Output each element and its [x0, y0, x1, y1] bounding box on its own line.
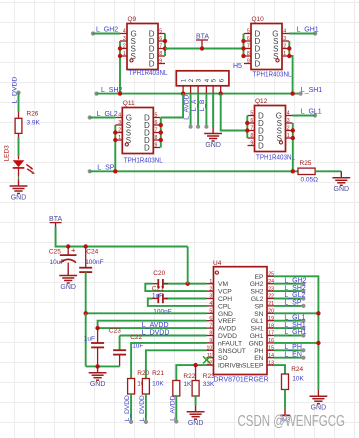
net label L_GH2: [91, 27, 118, 36]
svg-text:D: D: [144, 143, 150, 152]
svg-text:DVDD: DVDD: [218, 333, 237, 340]
wire L_DVDD to R26: [18, 93, 20, 119]
wire VREF row: [98, 321, 207, 328]
wire R23 lead: [195, 365, 197, 380]
svg-text:25: 25: [268, 272, 274, 278]
resistor R23: [192, 373, 215, 396]
junction Q10 drain bus: [241, 39, 245, 58]
svg-text:GND: GND: [60, 284, 76, 291]
svg-text:R25: R25: [300, 160, 312, 167]
svg-text:GND: GND: [11, 194, 27, 201]
net label L_DVDD (LED branch): [12, 77, 21, 104]
net label L_PH (U4): [274, 344, 306, 352]
net label L_SH1 (U4): [274, 322, 306, 330]
svg-text:2: 2: [283, 44, 286, 50]
svg-text:16: 16: [268, 338, 274, 344]
junction VM/BTA: [186, 282, 190, 286]
svg-text:6: 6: [247, 36, 250, 42]
svg-text:+: +: [71, 245, 76, 254]
svg-text:2: 2: [209, 286, 212, 292]
svg-text:15: 15: [268, 346, 274, 352]
svg-text:2: 2: [287, 126, 290, 132]
junction SH rail: [118, 91, 295, 95]
svg-text:L_GL2: L_GL2: [284, 292, 305, 299]
svg-text:8: 8: [155, 135, 158, 141]
junction AVDD/C23: [95, 326, 99, 330]
svg-text:L_DVDD: L_DVDD: [124, 395, 131, 421]
svg-text:9: 9: [247, 59, 250, 65]
svg-text:10K: 10K: [152, 380, 164, 387]
svg-text:7: 7: [209, 323, 212, 329]
net label L_SH2 (U4): [274, 285, 306, 293]
svg-text:L_B: L_B: [199, 99, 206, 111]
wire drain rail Q9-Q10: [165, 48, 244, 50]
svg-text:9: 9: [250, 141, 253, 147]
wire H9 pin6 to Q12 drain bus: [221, 94, 248, 131]
svg-text:D: D: [258, 141, 264, 150]
svg-text:CSDN @WENFGCG: CSDN @WENFGCG: [238, 413, 346, 430]
svg-text:33K: 33K: [203, 381, 215, 388]
junction SP rail: [113, 169, 295, 173]
wire GND row: [86, 312, 207, 314]
net label L_SP: [88, 164, 115, 173]
wire R24 down: [284, 390, 286, 409]
svg-text:L_AVDD: L_AVDD: [142, 322, 169, 329]
junction Q12 source bus: [291, 128, 295, 140]
ground (R23): [187, 405, 205, 427]
net label L_GL2: [88, 111, 118, 119]
svg-text:C21: C21: [152, 286, 164, 293]
svg-text:5: 5: [250, 111, 253, 117]
junction IDRIVE/R23: [193, 363, 197, 367]
svg-text:13: 13: [268, 360, 274, 366]
svg-text:EN: EN: [254, 355, 263, 362]
svg-text:GL1: GL1: [251, 318, 264, 325]
svg-text:9: 9: [155, 143, 158, 149]
wire DVDD row: [120, 335, 207, 337]
value label 100nF (C21): [153, 308, 171, 315]
wire SP rail: [90, 170, 298, 172]
svg-text:C23: C23: [109, 328, 121, 335]
svg-text:R24: R24: [291, 366, 303, 373]
net label L_GH1: [297, 27, 319, 36]
svg-text:DRV8701ERGER: DRV8701ERGER: [214, 377, 269, 384]
wire Q12 source bus: [292, 123, 294, 172]
watermark CSDN @WENFGCG: [238, 413, 346, 430]
junction Q9 drain bus: [163, 39, 167, 51]
wire BTA rail: [56, 227, 188, 247]
net label L_GH2 (U4): [274, 277, 307, 285]
svg-text:8: 8: [250, 133, 253, 139]
svg-text:CPH: CPH: [218, 296, 232, 303]
net label L_GH1 (U4): [274, 329, 307, 337]
svg-text:6: 6: [209, 316, 212, 322]
svg-text:8: 8: [247, 51, 250, 57]
net label L_SH2: [94, 87, 122, 96]
wire L_GL2 to Q11 gate: [90, 117, 116, 119]
ground (rail): [89, 366, 107, 388]
resistor R24: [282, 366, 305, 389]
resistor R22: [173, 373, 196, 396]
svg-text:7: 7: [155, 128, 158, 134]
svg-text:20: 20: [268, 309, 274, 315]
svg-text:GL2: GL2: [251, 296, 264, 303]
wire Q12 drain bus: [246, 116, 248, 139]
transistor Q10: [244, 16, 292, 78]
svg-text:6: 6: [250, 118, 253, 124]
net label L_DVDD (DVDD row): [142, 329, 170, 336]
svg-text:1K: 1K: [183, 381, 192, 388]
svg-text:R22: R22: [183, 373, 195, 380]
svg-text:0.05Ω: 0.05Ω: [301, 177, 319, 184]
wire C25 lead: [67, 247, 69, 256]
svg-text:VM: VM: [218, 281, 228, 288]
resistor R25: [298, 160, 318, 184]
junction BTA rail: [66, 244, 88, 248]
wire R25 to ground: [315, 170, 341, 172]
wire nSLEEP to R24: [274, 365, 285, 374]
svg-text:5: 5: [247, 29, 250, 35]
wire Q11 drain bus: [160, 118, 162, 148]
svg-text:PH: PH: [254, 348, 263, 355]
wire R22 to L_AVDD: [169, 395, 178, 423]
svg-text:4: 4: [123, 29, 126, 35]
svg-text:GND: GND: [311, 405, 327, 412]
wire SNSOUT row to R21: [146, 350, 207, 378]
resistor R26: [15, 110, 40, 133]
svg-text:GND: GND: [205, 142, 221, 149]
junction SN/EP: [316, 311, 320, 315]
svg-text:1uF: 1uF: [84, 335, 95, 342]
transistor Q11: [115, 100, 163, 165]
svg-text:GH2: GH2: [250, 281, 264, 288]
svg-text:GND: GND: [218, 311, 233, 318]
svg-text:L_EN: L_EN: [284, 351, 302, 358]
wire R21 to L_DVDD: [139, 394, 148, 424]
op-amp U1 equivalent driver IC U4: [207, 260, 275, 375]
ground (H9 pin5): [204, 127, 222, 149]
svg-text:1: 1: [287, 133, 290, 139]
svg-text:L_SH1: L_SH1: [301, 87, 323, 94]
svg-text:6: 6: [155, 120, 158, 126]
net label L_GL1: [301, 109, 322, 118]
svg-text:L_SP: L_SP: [97, 164, 114, 171]
power port BTA (top): [196, 33, 209, 48]
net label L_GL2 (U4): [274, 292, 306, 300]
svg-text:L_PH: L_PH: [284, 344, 302, 351]
ground (LED branch): [10, 180, 28, 202]
wire Q10 drain bus: [243, 34, 245, 57]
svg-text:L_SH2: L_SH2: [284, 285, 306, 292]
svg-text:L_DVDD: L_DVDD: [139, 395, 146, 421]
capacitor C23: [84, 328, 121, 367]
svg-text:Q11: Q11: [123, 100, 135, 107]
transistor Q12: [248, 98, 296, 162]
svg-text:9: 9: [209, 338, 212, 344]
svg-text:SN: SN: [254, 311, 263, 318]
svg-text:8: 8: [159, 51, 162, 57]
junction Q11 drain bus: [159, 123, 163, 142]
wire nFAULT row to R20: [131, 343, 206, 379]
svg-text:24: 24: [268, 279, 274, 285]
svg-text:GND: GND: [90, 381, 106, 388]
svg-text:1: 1: [209, 279, 212, 285]
svg-text:22: 22: [268, 294, 274, 300]
svg-text:7: 7: [159, 44, 162, 50]
wire ground rail (C24-C22): [86, 365, 120, 367]
net label L_SP (U4): [274, 300, 306, 308]
svg-text:nSLEEP: nSLEEP: [238, 363, 264, 370]
svg-text:L_A: L_A: [191, 99, 198, 111]
net label L_GL1 (U4): [274, 314, 306, 322]
svg-text:Q9: Q9: [128, 16, 137, 23]
wire LED3 to ground: [18, 168, 20, 180]
value label DRV8701ERGER: [214, 377, 269, 384]
svg-text:19: 19: [268, 316, 274, 322]
wire Q10 source bus: [289, 41, 292, 94]
wire H9 pin5 to ground: [212, 94, 214, 127]
svg-text:GND: GND: [188, 420, 204, 427]
no-ERC cross at SO pin: [203, 356, 210, 363]
wire C20 to VCP row: [145, 284, 206, 291]
svg-text:CPL: CPL: [218, 303, 231, 310]
wire SN row: [274, 312, 318, 314]
svg-text:4: 4: [209, 301, 212, 307]
wire C24 branch down: [85, 313, 87, 366]
wire Q11 source bus: [114, 125, 116, 171]
wire EP to ground: [274, 276, 318, 389]
wire C24 to GND row: [85, 272, 87, 313]
svg-text:L_AVDD: L_AVDD: [184, 94, 191, 119]
transistor Q9: [120, 16, 168, 77]
wire L_GH2 to Q9 gate: [93, 33, 120, 35]
svg-text:SP: SP: [255, 303, 264, 310]
wire SH rail: [97, 93, 301, 95]
wire BTA drop to VM: [187, 247, 189, 284]
net label H5: [233, 63, 242, 70]
wire Q9 drain bus: [164, 34, 166, 57]
wire R20 to L_DVDD: [124, 394, 133, 424]
svg-text:TPH1R403NL: TPH1R403NL: [253, 71, 292, 78]
svg-text:D: D: [255, 59, 261, 68]
svg-text:7: 7: [247, 44, 250, 50]
svg-text:23: 23: [268, 286, 274, 292]
svg-text:TPH1R403NL: TPH1R403NL: [124, 158, 163, 165]
svg-text:TPH1R403NL: TPH1R403NL: [129, 70, 168, 77]
svg-text:3: 3: [283, 36, 286, 42]
svg-text:H5: H5: [233, 63, 242, 70]
junction GND row / C24: [84, 311, 88, 315]
junction GND16/EP: [316, 341, 320, 345]
wire Q12 gate to L_GL1: [293, 115, 316, 117]
svg-text:3.9K: 3.9K: [27, 120, 41, 127]
svg-text:VREF: VREF: [218, 318, 236, 325]
svg-text:SH1: SH1: [250, 326, 263, 333]
junction BTA tap: [200, 46, 204, 50]
resistor R21: [142, 370, 164, 394]
wire C24 top lead: [85, 247, 87, 268]
svg-text:U4: U4: [213, 260, 222, 267]
capacitor C21: [152, 286, 164, 304]
net label L_EN (U4): [274, 351, 306, 359]
wire H9 pin4 (L_B): [199, 94, 208, 129]
capacitor C22: [113, 334, 143, 367]
svg-text:5: 5: [159, 29, 162, 35]
svg-text:TPH1R403NL: TPH1R403NL: [256, 155, 295, 162]
junction Q9 source bus: [118, 46, 122, 58]
svg-text:14: 14: [268, 353, 274, 359]
svg-text:Q12: Q12: [255, 98, 268, 105]
svg-text:2: 2: [118, 128, 121, 134]
svg-text:GND: GND: [334, 186, 350, 193]
svg-text:6: 6: [159, 36, 162, 42]
svg-text:5: 5: [155, 113, 158, 119]
svg-text:100nF: 100nF: [153, 308, 171, 315]
svg-text:21: 21: [268, 301, 274, 307]
svg-text:SO: SO: [218, 355, 228, 362]
capacitor C24: [79, 249, 103, 272]
svg-text:1: 1: [123, 51, 126, 57]
svg-text:AVDD: AVDD: [218, 326, 236, 333]
svg-text:4: 4: [283, 29, 286, 35]
svg-text:1: 1: [283, 51, 286, 57]
power port 3V3 (under watermark): [280, 409, 290, 424]
connector H9: [176, 71, 229, 94]
svg-text:SH2: SH2: [250, 289, 263, 296]
svg-text:SNSOUT: SNSOUT: [218, 348, 246, 355]
svg-text:C25: C25: [49, 249, 61, 256]
svg-text:8: 8: [209, 331, 212, 337]
wire Q10 gate to L_GH1: [289, 33, 315, 35]
wire C25 to ground: [67, 263, 69, 269]
svg-text:5: 5: [209, 309, 212, 315]
ground (C25): [59, 269, 77, 291]
svg-text:LED3: LED3: [4, 145, 11, 162]
LED LED3: [4, 145, 35, 174]
junction Q12 drain bus: [245, 121, 249, 133]
resistor R20: [128, 370, 150, 394]
wire IDRIVE row: [176, 365, 206, 380]
svg-text:1: 1: [118, 135, 121, 141]
svg-text:VCP: VCP: [218, 289, 232, 296]
svg-text:R23: R23: [203, 373, 215, 380]
svg-text:R21: R21: [152, 370, 164, 377]
svg-text:2: 2: [123, 44, 126, 50]
svg-text:L_GH1: L_GH1: [284, 329, 306, 336]
svg-text:L_DVDD: L_DVDD: [142, 329, 170, 336]
svg-text:L_GL1: L_GL1: [284, 314, 305, 321]
svg-text:100nF: 100nF: [85, 259, 103, 266]
net label L_SH1: [299, 87, 323, 96]
capacitor C25: [49, 245, 77, 266]
svg-text:Q10: Q10: [252, 16, 265, 23]
svg-text:C24: C24: [86, 249, 98, 256]
svg-text:10: 10: [207, 346, 213, 352]
svg-text:17: 17: [268, 331, 274, 337]
ground (R25): [332, 171, 350, 193]
svg-text:EP: EP: [255, 274, 264, 281]
svg-text:10K: 10K: [292, 376, 304, 383]
wire AVDD row: [98, 327, 207, 329]
svg-text:L_SH1: L_SH1: [284, 322, 306, 329]
svg-text:D: D: [149, 59, 155, 68]
wire H9 pin3 (L_A): [191, 94, 200, 129]
svg-text:7: 7: [250, 126, 253, 132]
svg-text:GND: GND: [249, 340, 264, 347]
junction ground rail: [95, 364, 99, 368]
svg-text:10uF: 10uF: [50, 259, 65, 266]
wire H9 pin2 (L_AVDD): [184, 94, 193, 129]
svg-text:L_AVDD: L_AVDD: [169, 395, 176, 420]
svg-text:3: 3: [209, 294, 212, 300]
svg-text:R20: R20: [137, 370, 149, 377]
capacitor C20: [153, 270, 165, 288]
svg-text:4: 4: [118, 113, 121, 119]
svg-text:3: 3: [123, 36, 126, 42]
wire CPH row: [153, 298, 207, 300]
svg-text:L_SP: L_SP: [284, 300, 301, 307]
wire C21 to CPL row: [148, 299, 207, 306]
wire VM row: [153, 283, 207, 285]
wire R26 to LED3: [18, 133, 20, 159]
svg-text:4: 4: [287, 111, 290, 117]
svg-text:18: 18: [268, 323, 274, 329]
power port BTA (lower): [49, 216, 62, 227]
svg-text:C20: C20: [153, 270, 165, 277]
svg-text:3: 3: [118, 120, 121, 126]
wire H9 pin1 to Q11 drain bus: [161, 94, 183, 118]
svg-text:R26: R26: [27, 110, 39, 117]
wire R23 to ground: [195, 396, 197, 405]
junction Q11 source bus: [113, 130, 117, 142]
svg-text:3: 3: [287, 118, 290, 124]
svg-text:C22: C22: [130, 334, 142, 341]
net label L_AVDD (AVDD row): [142, 322, 169, 329]
svg-text:nFAULT: nFAULT: [218, 340, 242, 347]
ground (EP): [310, 390, 328, 412]
junction Q10 source bus: [287, 46, 291, 58]
wire GND16 row: [274, 342, 318, 344]
svg-text:GH1: GH1: [250, 333, 264, 340]
svg-text:L_GH2: L_GH2: [284, 277, 306, 284]
svg-text:9: 9: [159, 59, 162, 65]
wire Q9 source bus: [119, 41, 121, 94]
